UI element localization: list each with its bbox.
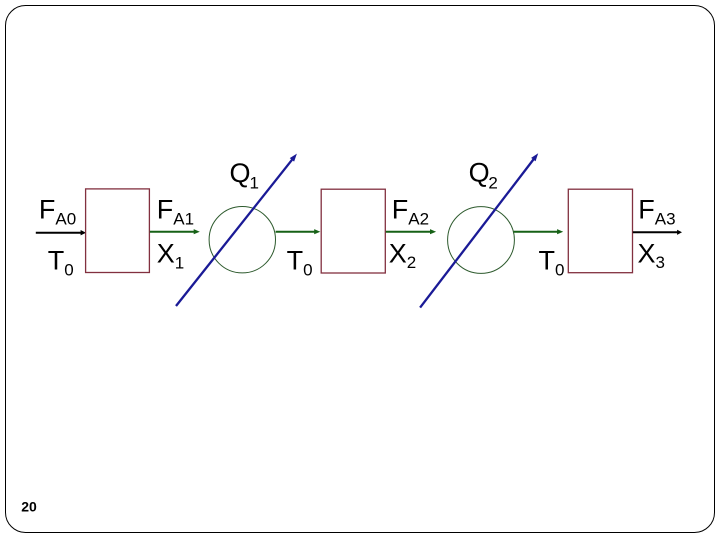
- block box 3: [568, 189, 632, 273]
- circle mixer Q1: [209, 207, 275, 273]
- svg-text:20: 20: [21, 499, 37, 515]
- wire: output arrow FA3: [633, 230, 682, 235]
- wire: arrow FA2 box2 to circle Q2: [386, 229, 436, 234]
- wire: arrow FA1 box1 to circle Q1: [150, 229, 200, 234]
- wire: arrow circle Q1 to box2: [276, 229, 321, 234]
- wire: blue flow arrow Q2: [420, 153, 538, 307]
- wire: arrow circle Q2 to box3: [514, 229, 564, 234]
- circle mixer Q2: [448, 207, 515, 274]
- wire: input arrow FA0/T0: [36, 230, 86, 235]
- block box 2: [321, 189, 385, 273]
- wire: blue flow arrow Q1: [176, 154, 297, 306]
- block box 1: [86, 189, 150, 273]
